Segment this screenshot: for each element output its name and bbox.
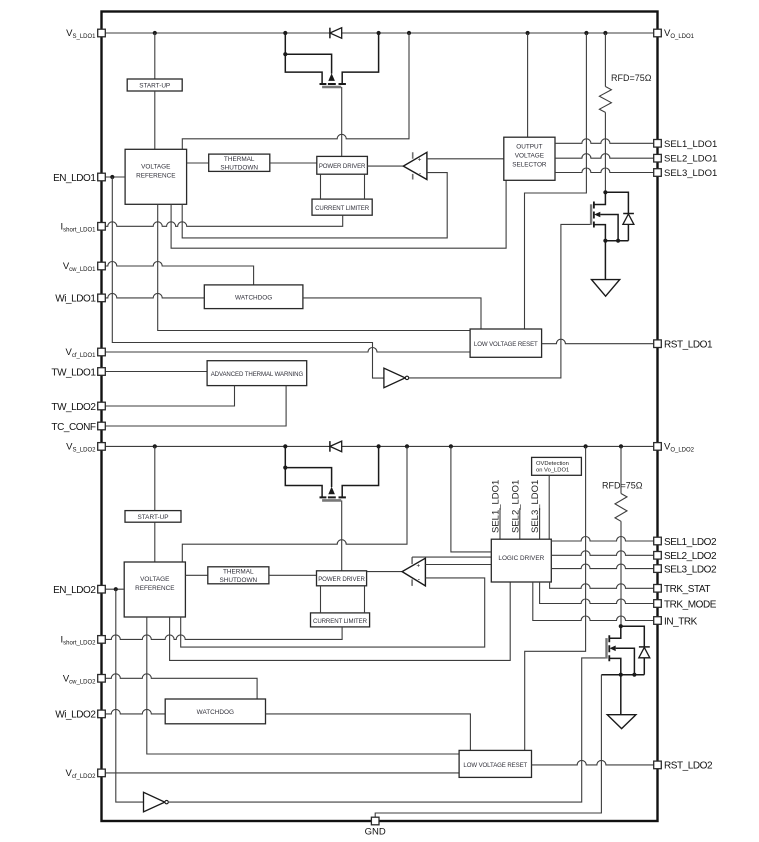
svg-text:TRK_MODE: TRK_MODE (664, 599, 717, 610)
wire: logic driver to amp stub line (412, 556, 491, 558)
wire: Vcw_LDO1 to watchdog (102, 262, 254, 285)
wire: low voltage reset to RST_LDO1 (542, 339, 658, 343)
wire: TW_LDO2 into advanced thermal warning (102, 386, 235, 406)
wire: Vcw_LDO2 to watchdog 2 (102, 674, 258, 699)
svg-text:VOLTAGE: VOLTAGE (515, 153, 544, 160)
svg-text:TC_CONF: TC_CONF (51, 422, 95, 433)
wire: amp - input from voltage reference 2 (181, 578, 485, 647)
diode D1 (reverse protection, LDO1 rail) (330, 28, 342, 39)
wire: OVDetection to logic driver (548, 475, 550, 539)
transistor M3 power pass PMOS LDO2 (283, 446, 378, 500)
svg-text:TW_LDO2: TW_LDO2 (51, 402, 96, 413)
block: VOLTAGE REFERENCE LDO1 (125, 149, 187, 204)
node: SEL2_LDO1 input stub (519, 508, 521, 539)
svg-text:SHUTDOWN: SHUTDOWN (219, 577, 257, 584)
svg-text:CURRENT LIMITER: CURRENT LIMITER (315, 205, 370, 212)
svg-text:WATCHDOG: WATCHDOG (235, 294, 272, 301)
op-amp A2 error amplifier LDO2 (367, 571, 403, 573)
wire: SEL1_LDO1 row (555, 139, 658, 144)
resistor RFD=75ohm LDO2 (615, 446, 627, 626)
svg-text:POWER DRIVER: POWER DRIVER (318, 576, 365, 583)
ground symbol (M2 source) (604, 241, 606, 280)
node: rail junction dots LDO2 (153, 444, 623, 448)
pin EN_LDO1 (98, 173, 106, 181)
svg-text:VOLTAGE: VOLTAGE (141, 164, 170, 171)
wire: low voltage reset 2 to RST_LDO2 (532, 760, 658, 765)
pin TW_LDO1 (98, 368, 106, 376)
pin IN_TRK (654, 617, 662, 625)
wire: amp + input from logic driver (425, 564, 491, 566)
svg-text:THERMAL: THERMAL (223, 569, 254, 576)
pin EN_LDO2 (98, 585, 106, 593)
pin VO_LDO2 (654, 443, 662, 451)
pin Ishort_LDO2 (98, 636, 106, 644)
wire: Ishort_LDO1 to current limiter (102, 215, 343, 226)
pin Vcw_LDO1 (98, 262, 106, 270)
pin SEL2_LDO2 (654, 552, 662, 560)
svg-text:START-UP: START-UP (139, 83, 170, 90)
wire: VREF2 to logic driver reference line (170, 582, 511, 660)
wire: watchdog 2 output to low voltage reset 2 (266, 714, 471, 751)
wire: TRK_STAT row (550, 582, 658, 588)
svg-text:SEL1_LDO2: SEL1_LDO2 (664, 537, 717, 548)
svg-text:OUTPUT: OUTPUT (516, 144, 542, 151)
wire: VS_LDO2 supply rail (102, 445, 658, 447)
svg-text:SEL2_LDO1: SEL2_LDO1 (510, 480, 521, 533)
op-amp A1 error amplifier LDO1 (367, 165, 403, 167)
svg-text:+: + (418, 157, 422, 164)
wire: VREF top supply wire to VS rail (182, 33, 409, 149)
svg-text:on Vo_LDO1: on Vo_LDO1 (536, 468, 569, 474)
svg-text:SELECTOR: SELECTOR (512, 162, 547, 169)
wire: VS_LDO1 supply rail (102, 32, 658, 34)
svg-text:OVDetection: OVDetection (536, 461, 569, 467)
pin RST_LDO2 (654, 761, 662, 769)
block: START-UP LDO2 (154, 446, 156, 510)
svg-text:POWER DRIVER: POWER DRIVER (319, 163, 366, 170)
block: CURRENT LIMITER LDO2 (311, 613, 370, 627)
block: WATCHDOG LDO2 (165, 699, 265, 724)
svg-text:RFD=75Ω: RFD=75Ω (611, 73, 652, 83)
block: POWER DRIVER LDO2 (317, 571, 367, 586)
svg-text:RST_LDO2: RST_LDO2 (664, 761, 713, 772)
svg-text:REFERENCE: REFERENCE (136, 173, 175, 180)
block: ADVANCED THERMAL WARNING (102, 371, 208, 373)
node: SEL3_LDO1 input stub (539, 508, 541, 539)
svg-text:RST_LDO1: RST_LDO1 (664, 340, 713, 351)
pin Wi_LDO1 (98, 294, 106, 302)
svg-text:SEL1_LDO1: SEL1_LDO1 (491, 480, 502, 533)
pin SEL1_LDO1 (654, 140, 662, 148)
wire: Wi_LDO2 to watchdog 2 (102, 709, 166, 714)
diode D2 (zener at M2 drain) (605, 192, 634, 240)
pin Vcf_LDO1 (98, 348, 106, 356)
pin SEL3_LDO2 (654, 565, 662, 573)
svg-text:THERMAL: THERMAL (224, 156, 255, 163)
pin SEL1_LDO2 (654, 537, 662, 545)
svg-text:SEL2_LDO2: SEL2_LDO2 (664, 551, 717, 562)
wire: EN_LDO1 into voltage reference (102, 176, 126, 178)
pin TRK_STAT (654, 585, 662, 593)
wire: EN_LDO1 branch down to inverter (112, 177, 384, 378)
pin TRK_MODE (654, 600, 662, 608)
svg-text:GND: GND (365, 827, 386, 838)
node: rail junction dots LDO1 (153, 31, 608, 35)
svg-text:LOW VOLTAGE RESET: LOW VOLTAGE RESET (474, 341, 538, 348)
block: LOW VOLTAGE RESET LDO1 (470, 329, 541, 357)
svg-text:SEL3_LDO1: SEL3_LDO1 (664, 168, 717, 179)
pin TC_CONF (98, 422, 106, 430)
resistor RFD=75ohm LDO1 (599, 33, 611, 192)
wire: VREF2 top supply wire to VS2 rail (182, 446, 407, 562)
svg-text:TW_LDO1: TW_LDO1 (51, 367, 96, 378)
inverter U1 (EN to RST gate) LDO1 (384, 368, 405, 388)
svg-text:SEL3_LDO2: SEL3_LDO2 (664, 564, 717, 575)
wire: SEL1_LDO2 row (551, 537, 657, 542)
wire: watchdog output to low voltage reset (303, 298, 481, 329)
svg-text:Wi_LDO2: Wi_LDO2 (55, 710, 96, 721)
svg-text:VOLTAGE: VOLTAGE (140, 576, 169, 583)
wire: VO_LDO1 feedback to low voltage reset (525, 33, 587, 329)
wire: SEL2_LDO1 row (555, 154, 658, 159)
svg-text:IN_TRK: IN_TRK (664, 616, 698, 627)
pin SEL3_LDO1 (654, 169, 662, 177)
wire: gate drive from power driver to M3 (341, 500, 343, 570)
pin VS_LDO1 (98, 29, 106, 37)
block: START-UP LDO1 (154, 33, 156, 79)
transistor M4 RST pulldown NMOS LDO2 (601, 624, 644, 677)
wire: SEL3_LDO1 row (555, 168, 658, 173)
wire: TRK_MODE row (540, 582, 658, 604)
svg-text:ADVANCED THERMAL WARNING: ADVANCED THERMAL WARNING (211, 371, 304, 378)
pin Wi_LDO2 (98, 710, 106, 718)
wire: inverter 2 output to M4 gate (168, 658, 606, 802)
svg-text:START-UP: START-UP (137, 514, 168, 521)
pin Vcw_LDO2 (98, 675, 106, 683)
pin SEL2_LDO1 (654, 154, 662, 162)
svg-text:LOGIC DRIVER: LOGIC DRIVER (498, 555, 544, 562)
pin RST_LDO1 (654, 340, 662, 348)
block: OUTPUT VOLTAGE SELECTOR (527, 33, 529, 137)
svg-text:SHUTDOWN: SHUTDOWN (220, 164, 258, 171)
pin TW_LDO2 (98, 402, 106, 410)
svg-text:RFD=75Ω: RFD=75Ω (602, 481, 643, 491)
block: THERMAL SHUTDOWN LDO1 (187, 162, 209, 164)
block: OVDetection on Vo_LDO1 (532, 457, 582, 475)
wire: Vcf_LDO1 to low voltage reset (102, 348, 471, 353)
IC outer boundary (102, 12, 658, 822)
svg-text:REFERENCE: REFERENCE (135, 585, 174, 592)
wire: amp - input from voltage reference (182, 173, 447, 238)
diode D4 (zener at M4 drain) (621, 626, 650, 675)
svg-text:CURRENT LIMITER: CURRENT LIMITER (313, 618, 368, 625)
svg-text:EN_LDO2: EN_LDO2 (53, 585, 96, 596)
wire: VREF long line to low voltage reset (158, 204, 470, 330)
block: LOW VOLTAGE RESET LDO2 (459, 750, 531, 777)
svg-text:SEL1_LDO1: SEL1_LDO1 (664, 139, 717, 150)
inverter U2 (EN2 to RST gate) (144, 792, 165, 812)
svg-text:SEL3_LDO1: SEL3_LDO1 (530, 480, 541, 533)
wire: TC_CONF into advanced thermal warning (102, 386, 287, 426)
node: SEL1_LDO1 input stub (499, 508, 501, 539)
wire: power driver to current limiter links LDO2 (321, 586, 365, 613)
svg-text:+: + (416, 562, 420, 569)
svg-text:Wi_LDO1: Wi_LDO1 (55, 294, 96, 305)
block: POWER DRIVER LDO1 (317, 156, 368, 174)
wire: VREF2 long line to low voltage reset 2 (147, 617, 459, 754)
wire: VREF to output voltage selector reference line (171, 180, 506, 248)
wire: Vcf_LDO2 to low voltage reset 2 (102, 772, 460, 774)
wire: M4 source return to GND pin (375, 675, 601, 821)
diode D3 (reverse protection, LDO2 rail) (330, 441, 342, 452)
wire: IN_TRK row (533, 582, 658, 621)
svg-text:TRK_STAT: TRK_STAT (664, 584, 710, 595)
wire: VO_LDO2 feedback to low voltage reset 2 (525, 446, 586, 750)
pin Ishort_LDO1 (98, 223, 106, 231)
wire: EN_LDO2 into voltage reference (102, 588, 125, 590)
svg-text:SEL2_LDO1: SEL2_LDO1 (664, 154, 717, 165)
pin VO_LDO1 (654, 29, 662, 37)
wire: power driver to current limiter links (321, 174, 365, 199)
wire: EN_LDO2 branch down to inverter U2 (116, 589, 144, 802)
wire: gate drive from power driver to M1 (341, 87, 343, 156)
wire: amp + input from output voltage selector (427, 158, 504, 160)
wire: SEL3_LDO2 row (551, 564, 657, 569)
svg-text:WATCHDOG: WATCHDOG (197, 709, 234, 716)
wire: inverter output up to M2 gate (409, 224, 591, 378)
transistor M2 RST pulldown NMOS LDO1 (591, 190, 628, 243)
pin GND (371, 817, 379, 825)
wire: Wi_LDO1 to watchdog (102, 293, 205, 298)
wire: Ishort_LDO2 to current limiter (102, 627, 343, 640)
svg-text:LOW VOLTAGE RESET: LOW VOLTAGE RESET (463, 762, 527, 769)
block: VOLTAGE REFERENCE LDO2 (124, 562, 185, 617)
block: LOGIC DRIVER (491, 539, 551, 582)
wire: SEL2_LDO2 row (551, 551, 657, 556)
block: THERMAL SHUTDOWN LDO2 (185, 574, 207, 576)
svg-text:EN_LDO1: EN_LDO1 (53, 173, 96, 184)
ground symbol (M4 source) (620, 675, 622, 715)
wire: logic driver supply from VS2 rail (451, 446, 491, 552)
block: CURRENT LIMITER LDO1 (312, 199, 372, 215)
pin Vcf_LDO2 (98, 769, 106, 777)
transistor M1 power pass PMOS LDO1 (283, 33, 378, 87)
pin VS_LDO2 (98, 443, 106, 451)
block: WATCHDOG LDO1 (204, 285, 303, 309)
